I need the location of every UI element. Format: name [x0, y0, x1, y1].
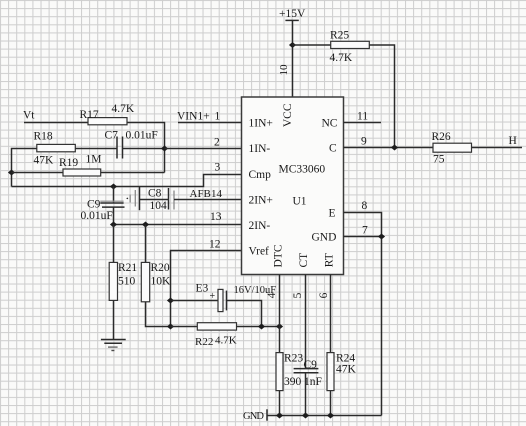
wire R22 to DTC column [237, 326, 280, 328]
svg-text:47K: 47K [336, 364, 357, 376]
GND port tick [266, 409, 268, 420]
svg-text:5: 5 [292, 292, 304, 298]
svg-text:1: 1 [215, 111, 221, 123]
wire pin 3 net (Cmp) [12, 175, 242, 187]
svg-text:R17: R17 [80, 109, 99, 121]
svg-text:H: H [509, 135, 517, 147]
wire R20 top [145, 225, 147, 263]
wire R19 to node column [101, 172, 165, 174]
junction C9 top [110, 184, 117, 190]
wire R25 branch [293, 44, 331, 46]
svg-text:2IN+: 2IN+ [249, 195, 273, 207]
junction rail / R24 [327, 413, 334, 419]
capacitor C8 (two plate pairs) [126, 187, 174, 211]
capacitor C7 [117, 137, 123, 159]
svg-text:R18: R18 [34, 131, 53, 143]
svg-text:Cmp: Cmp [249, 169, 272, 181]
junction node (R17/C7/pin2) [161, 146, 168, 152]
svg-text:+: + [210, 291, 216, 302]
svg-text:VCC: VCC [282, 103, 294, 127]
junction pin7 / pin8 column [378, 234, 385, 240]
wire C8 to pin 14 [174, 199, 242, 201]
junction R22 / pin4 [276, 324, 283, 330]
svg-text:3: 3 [215, 162, 221, 174]
wire Vt to R17 [24, 122, 88, 124]
earth ground symbol [101, 340, 126, 351]
junction C9 bottom [110, 222, 117, 228]
resistor R19 [63, 169, 101, 176]
resistor R25 [331, 41, 370, 48]
power port +15V [279, 8, 306, 20]
svg-text:CT: CT [298, 253, 310, 268]
wire left rail R18 [12, 149, 37, 187]
svg-text:GND: GND [243, 411, 264, 422]
resistor R22 [197, 323, 236, 330]
svg-text:4.7K: 4.7K [112, 103, 135, 115]
wire pin 1 [178, 122, 242, 124]
svg-text:DTC: DTC [272, 244, 284, 267]
wire pin 6 RT column [330, 275, 332, 416]
wire pin 8 E to ground column [344, 213, 382, 416]
svg-text:C: C [329, 143, 337, 155]
svg-text:2: 2 [214, 137, 220, 149]
svg-text:14: 14 [211, 188, 223, 200]
wire R17 to node column [127, 123, 165, 173]
svg-text:510: 510 [118, 276, 136, 288]
svg-text:R22: R22 [195, 336, 213, 348]
wire R25 to pin 9 column [369, 45, 394, 148]
wire pin 5 CT column top [305, 275, 307, 369]
wire C7 to node [123, 148, 165, 150]
wire pin 9 output [344, 147, 523, 149]
junction rail / C9 [302, 413, 309, 419]
svg-text:E3: E3 [196, 283, 209, 295]
svg-text:C9: C9 [304, 359, 318, 371]
wire +15V to VCC pin 10 [292, 20, 294, 97]
wire pin 5 CT column bottom [305, 373, 307, 416]
wire pin 11 NC stub [344, 122, 382, 124]
svg-text:1nF: 1nF [304, 376, 322, 388]
junction R25 / pin 9 [391, 145, 398, 151]
resistor R26 [433, 143, 472, 152]
svg-text:6: 6 [318, 292, 330, 298]
svg-text:1IN+: 1IN+ [249, 118, 273, 130]
junction left rail / R19 [8, 170, 15, 176]
wire E3 right [227, 301, 262, 327]
svg-text:Vref: Vref [249, 246, 270, 258]
svg-text:2IN-: 2IN- [249, 220, 271, 232]
svg-text:10K: 10K [151, 276, 172, 288]
svg-text:C7: C7 [105, 130, 119, 142]
svg-text:13: 13 [210, 211, 222, 223]
svg-text:+15V: +15V [279, 8, 306, 20]
svg-text:R23: R23 [284, 353, 303, 365]
ground rail [267, 415, 382, 417]
junction E3 / R22 [258, 324, 265, 330]
capacitor E3 (electrolytic) [218, 289, 227, 311]
wire node to pin 2 [165, 148, 242, 150]
svg-text:9: 9 [361, 136, 367, 148]
svg-text:4.7K: 4.7K [330, 52, 353, 64]
svg-text:4.7K: 4.7K [215, 335, 237, 347]
junction Vref / E3 [167, 298, 174, 304]
resistor R17 [88, 118, 127, 125]
svg-text:RT: RT [324, 253, 336, 267]
resistor R18 [37, 144, 76, 151]
wire R20 bottom to R22 node [146, 302, 171, 327]
svg-text:7: 7 [362, 225, 368, 237]
svg-text:0.01uF: 0.01uF [126, 130, 158, 142]
wire R18 to C7 [75, 148, 117, 150]
svg-text:R26: R26 [432, 131, 451, 143]
svg-text:GND: GND [312, 232, 337, 244]
svg-text:E: E [329, 208, 336, 220]
svg-text:47K: 47K [34, 155, 55, 167]
junction R20 top [142, 222, 149, 228]
junction rail / R23 [276, 413, 283, 419]
svg-text:AFB: AFB [190, 188, 211, 200]
svg-text:390: 390 [284, 376, 302, 388]
svg-text:R19: R19 [59, 157, 78, 169]
svg-text:C8: C8 [148, 188, 162, 200]
capacitor C9 (0.01uF) [100, 187, 124, 225]
svg-text:MC33060: MC33060 [279, 164, 326, 176]
wire E3 left [171, 300, 219, 302]
svg-text:U1: U1 [293, 196, 307, 208]
svg-text:Vt: Vt [23, 110, 35, 122]
resistor R20 [141, 262, 149, 301]
svg-text:0.01uF: 0.01uF [81, 210, 113, 222]
svg-text:10: 10 [278, 64, 290, 76]
wire R22 row [171, 326, 198, 328]
capacitor C9 (1nF) [294, 369, 319, 373]
wire pin 12 Vref net [171, 251, 242, 327]
svg-text:8: 8 [362, 200, 368, 212]
IC U1 body [242, 97, 344, 275]
wire pin 7 GND [344, 236, 382, 238]
svg-text:4: 4 [266, 292, 278, 298]
svg-text:75: 75 [433, 154, 445, 166]
svg-text:104: 104 [150, 200, 168, 212]
wire pin 4 DTC column [279, 275, 281, 416]
svg-text:VIN1+: VIN1+ [177, 111, 210, 123]
svg-text:1M: 1M [86, 154, 102, 166]
wire R21 top [113, 225, 115, 263]
svg-text:1IN-: 1IN- [249, 143, 271, 155]
svg-text:11: 11 [357, 111, 368, 123]
wire pin 13 net [114, 224, 242, 226]
resistor R21 [109, 262, 117, 300]
junction at +15V / R25 branch [289, 42, 296, 48]
junction Vref / R22 [167, 324, 174, 330]
svg-text:R25: R25 [330, 30, 349, 42]
svg-text:C9: C9 [87, 199, 101, 211]
wire R21 bottom [113, 300, 115, 339]
resistor R24 [327, 353, 334, 391]
svg-text:NC: NC [322, 118, 338, 130]
svg-text:R21: R21 [118, 262, 137, 274]
svg-text:12: 12 [209, 239, 221, 251]
wire rail to R19 [12, 172, 64, 174]
resistor R23 [276, 353, 283, 391]
svg-text:R20: R20 [151, 262, 170, 274]
